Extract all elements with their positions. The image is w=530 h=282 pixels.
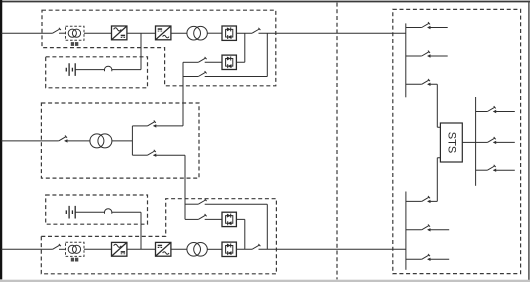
wire	[171, 32, 187, 34]
switch lower bypass branch	[148, 150, 156, 155]
switch branch A3	[422, 79, 430, 84]
battery box 1 dashed outline	[46, 57, 148, 88]
output transformer T1	[187, 26, 201, 40]
wire feeder 3	[1, 248, 53, 250]
wall separator dashed line	[336, 3, 338, 280]
battery riser wire 1	[112, 33, 141, 69]
static switch SS4 (bypass UPS2)	[222, 212, 236, 226]
switch out branch 3	[487, 165, 495, 170]
optional input transformer T0b dashed box	[66, 242, 85, 256]
fuse F2	[105, 209, 112, 214]
wire feeder 1	[1, 32, 53, 34]
distribution bus A (UPS1 output)	[405, 23, 407, 97]
output transformer T2	[187, 243, 201, 257]
rectifier REC2	[112, 242, 127, 256]
UPS1 cabinet dashed outline	[42, 10, 276, 86]
wire branch B2	[406, 229, 422, 231]
border frame right	[528, 1, 530, 282]
wire UPS2 output to distribution	[259, 248, 406, 250]
switch branch A1	[422, 22, 430, 27]
static switch SS3 (inverter side UPS2)	[222, 242, 236, 256]
wire STS input 1	[428, 84, 441, 127]
switch maintenance bypass UPS2	[198, 199, 206, 204]
static switch SS2 (bypass)	[222, 55, 236, 69]
bypass transformer T3	[90, 134, 104, 148]
bottom window band	[0, 280, 530, 282]
wire	[59, 248, 66, 250]
wire	[205, 61, 222, 63]
switch static bypass UPS2	[198, 214, 206, 219]
wire	[236, 248, 252, 250]
wire upper branch	[132, 125, 147, 127]
STS output bus	[475, 97, 477, 186]
wire static bypass UPS2	[185, 218, 198, 220]
wire branch A2	[406, 55, 422, 57]
switch branch B3	[422, 254, 430, 259]
bypass transformer box dashed outline	[41, 103, 199, 178]
wire maintenance bypass	[183, 76, 198, 78]
wire branch A1	[406, 27, 422, 29]
UPS2 cabinet dashed outline	[41, 199, 276, 274]
wire branch A3 (to STS input 1)	[406, 83, 422, 85]
wire	[171, 248, 187, 250]
split node riser	[131, 126, 133, 155]
wire	[75, 69, 104, 71]
wire	[494, 169, 515, 171]
border frame left	[0, 0, 2, 279]
wire UPS1 output to distribution	[259, 32, 406, 34]
fuse F1	[105, 66, 112, 71]
switch branch A2	[422, 51, 430, 56]
wire	[494, 141, 515, 143]
wire	[84, 248, 112, 250]
wire to UPS1 bypass	[154, 125, 183, 127]
svg-text:STS: STS	[445, 132, 457, 153]
switch Q4 output UPS2	[252, 244, 260, 249]
switch branch B1	[422, 196, 430, 201]
switch branch B2	[422, 224, 430, 229]
switch Q1 input UPS1	[53, 28, 61, 33]
wire	[127, 248, 156, 250]
wire	[428, 55, 448, 57]
wire out branch 1	[476, 111, 488, 113]
inverter INV2	[156, 242, 171, 256]
wire	[75, 211, 104, 213]
wire	[205, 33, 268, 76]
bypass feed riser 2	[184, 155, 186, 219]
wire	[207, 248, 222, 250]
label 可选 (optional)	[71, 258, 79, 262]
switch out branch 2	[487, 137, 495, 142]
wire branch B1 (to STS input 2)	[406, 200, 422, 202]
wire branch B3	[406, 258, 422, 260]
wire	[428, 229, 449, 231]
wire maintenance bypass UPS2	[185, 203, 198, 205]
switch static bypass UPS1	[198, 57, 206, 62]
distribution cabinet dashed outline	[393, 9, 521, 273]
wire	[236, 32, 252, 34]
optional input transformer T0	[68, 29, 76, 37]
battery box 2 dashed outline	[46, 195, 148, 224]
wire out branch 3	[476, 169, 488, 171]
STS box	[440, 123, 462, 162]
battery riser wire 2	[112, 212, 141, 249]
distribution bus B (UPS2 output)	[405, 192, 407, 270]
wire bypass join	[236, 33, 244, 62]
bypass feed riser 1	[182, 62, 184, 126]
wire feeder 2 (bypass source)	[1, 140, 59, 142]
optional input transformer T0b	[68, 245, 76, 253]
border frame top	[0, 1, 530, 3]
wire	[65, 140, 90, 142]
inverter INV1	[156, 26, 171, 40]
wire	[84, 32, 112, 34]
wire STS output	[462, 141, 475, 143]
switch bypass feeder	[59, 136, 67, 141]
wire	[428, 27, 448, 29]
switch maintenance bypass UPS1	[198, 71, 206, 76]
wire lower branch	[132, 154, 147, 156]
wire	[207, 32, 222, 34]
wire static bypass	[183, 61, 198, 63]
label 可选 (optional)	[71, 42, 79, 46]
switch Q3 input UPS2	[53, 244, 61, 249]
switch Q2 output UPS1	[252, 28, 260, 33]
wire	[112, 140, 132, 142]
wire bypass join UPS2	[236, 219, 244, 249]
wire with DC node	[127, 32, 156, 34]
optional input transformer T0 dashed box	[66, 26, 85, 40]
switch out branch 1	[487, 106, 495, 111]
wire STS input 2	[428, 158, 441, 202]
wire to UPS2 bypass	[154, 154, 185, 156]
wire	[494, 111, 515, 113]
switch upper bypass branch	[148, 121, 156, 126]
wire out branch 2	[476, 141, 488, 143]
battery B1	[66, 63, 75, 76]
static switch SS1 (inverter side)	[222, 26, 236, 40]
wire	[428, 258, 449, 260]
wire	[59, 32, 66, 34]
wire	[205, 218, 222, 220]
battery B2	[66, 206, 75, 219]
rectifier REC1	[112, 26, 127, 40]
wire	[205, 204, 268, 249]
